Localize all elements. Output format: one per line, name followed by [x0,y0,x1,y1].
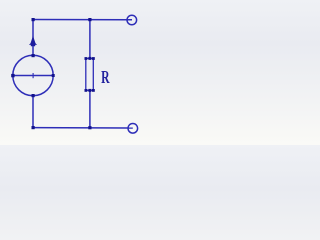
wire left vertical lower [32,96,34,128]
node source top [32,54,35,57]
node resistor top-right corner [92,57,95,60]
terminal bottom [128,124,138,134]
node bottom-left corner [32,126,35,129]
node bottom T junction [88,126,91,129]
node diameter right [52,74,55,77]
node resistor top-left corner [85,57,88,60]
node top-left corner [32,18,35,21]
resistor R body [86,58,94,90]
svg-text:R: R [101,67,110,87]
node resistor top pin [88,57,91,60]
node source bottom [32,94,35,97]
node resistor bottom-left corner [85,89,88,92]
wire bottom horizontal [33,127,133,129]
wire resistor bottom [89,90,91,127]
terminal top [127,15,137,25]
node resistor bottom-right corner [92,89,95,92]
wire top horizontal [33,19,132,21]
arrow (current direction, pointing up) [29,36,37,47]
node resistor bottom pin [88,89,91,92]
node diameter left [11,74,14,77]
wire left vertical upper [32,20,34,56]
current source center tick [32,73,34,78]
junction dots [11,18,95,129]
current source diameter line [13,75,53,77]
node top T junction [88,18,91,21]
wire resistor top [89,20,91,59]
current source U1 circle [13,55,53,95]
